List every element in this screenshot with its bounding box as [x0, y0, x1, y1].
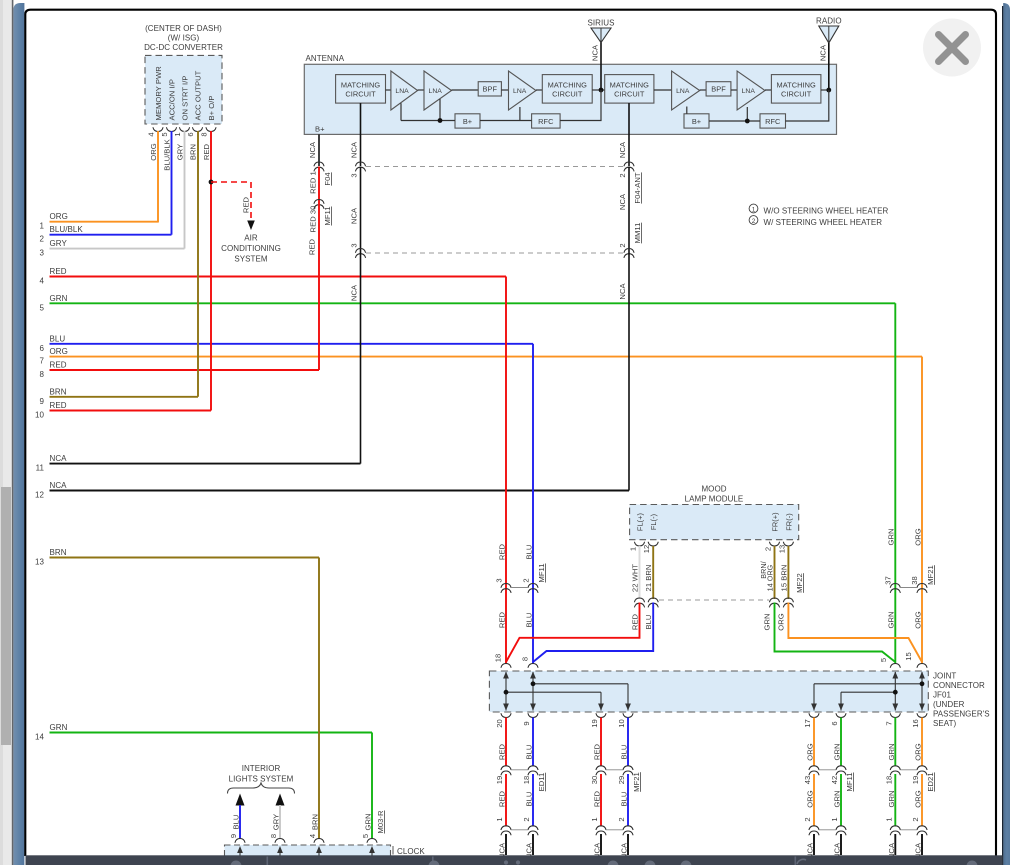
svg-text:10: 10 — [35, 411, 44, 420]
LNA A2 — [424, 71, 452, 110]
junction dot on RED B+ wire — [209, 180, 214, 185]
wire 8 number — [40, 370, 45, 379]
B+ supply box 1 — [455, 114, 480, 128]
svg-text:ORG: ORG — [914, 743, 923, 760]
wire LNA4 to BPF2 — [700, 89, 706, 91]
svg-text:ED21: ED21 — [926, 772, 935, 791]
svg-text:2: 2 — [803, 817, 812, 821]
svg-text:RED 30: RED 30 — [309, 206, 318, 233]
svg-text:5: 5 — [40, 303, 45, 312]
svg-text:CONDITIONING: CONDITIONING — [221, 244, 281, 253]
wire 5 label GRN — [50, 294, 68, 303]
svg-text:ACC/ON I/P: ACC/ON I/P — [168, 79, 177, 120]
antenna label — [306, 54, 345, 63]
svg-text:BRN: BRN — [50, 548, 67, 557]
svg-text:SYSTEM: SYSTEM — [234, 255, 267, 264]
JF01 exit arrow x533 — [530, 704, 536, 711]
svg-text:1: 1 — [173, 132, 182, 136]
svg-text:MATCHING: MATCHING — [548, 80, 587, 89]
wire 13 BRN horizontal — [50, 557, 320, 559]
svg-text:GRY: GRY — [176, 144, 185, 160]
svg-text:GRN: GRN — [887, 611, 896, 628]
svg-text:MATCHING: MATCHING — [777, 80, 816, 89]
JF01 exit cup x841 — [836, 713, 846, 717]
wire 5 number — [40, 303, 45, 312]
wire 1 number — [40, 222, 45, 231]
wire MC3 to LNA4 — [654, 89, 672, 91]
svg-text:1: 1 — [40, 222, 45, 231]
DC-DC pin 4 connector — [147, 127, 164, 136]
svg-text:BLU/BLK: BLU/BLK — [50, 225, 84, 234]
wire 2 BLU/BLK horizontal — [50, 234, 172, 236]
svg-text:ON STRT I/P: ON STRT I/P — [181, 76, 190, 121]
svg-text:NCA: NCA — [50, 454, 68, 463]
MC3 drop NCA upper — [618, 103, 629, 166]
svg-text:3: 3 — [495, 578, 504, 582]
svg-text:FL(+): FL(+) — [636, 513, 645, 531]
svg-text:BLU: BLU — [525, 545, 534, 560]
wire 11 number — [36, 464, 45, 473]
connector MM11 dashed link — [366, 252, 623, 254]
JF01 label — [933, 672, 990, 729]
svg-text:20: 20 — [495, 719, 504, 728]
clock internal arrow pin 9 — [237, 846, 243, 858]
antenna module box — [304, 64, 836, 134]
svg-text:BLU: BLU — [644, 615, 653, 630]
MC3 drop NCA middle — [618, 167, 642, 254]
note 1 W/O steering wheel heater — [749, 204, 888, 215]
svg-text:MOOD: MOOD — [701, 485, 726, 494]
svg-text:2: 2 — [618, 173, 627, 177]
svg-text:42: 42 — [830, 776, 839, 785]
svg-text:4: 4 — [308, 834, 317, 838]
DC-DC pin 1 wire label GRY — [176, 144, 185, 160]
svg-text:5: 5 — [361, 834, 370, 838]
svg-text:RED: RED — [593, 790, 602, 807]
svg-text:29: 29 — [617, 776, 626, 785]
svg-text:FR(+): FR(+) — [771, 512, 780, 531]
LNA3 bias drop — [519, 107, 521, 121]
svg-text:BRN: BRN — [189, 144, 198, 160]
svg-text:RADIO: RADIO — [816, 16, 842, 25]
svg-text:ORG: ORG — [914, 528, 923, 545]
wire 8 label RED — [50, 361, 67, 370]
node SIRIUS junction — [599, 88, 604, 93]
node bias junction 2 — [745, 119, 750, 124]
mood lamp wire pin2 BRN/ORG — [759, 546, 775, 599]
svg-text:15: 15 — [904, 652, 913, 661]
air conditioning system text — [221, 234, 281, 264]
wire BPF2 to LNA5 — [731, 89, 737, 91]
svg-text:NCA: NCA — [618, 141, 627, 158]
svg-text:12: 12 — [35, 491, 44, 500]
svg-text:16: 16 — [911, 719, 920, 728]
svg-text:JF01: JF01 — [933, 691, 951, 700]
svg-text:CLOCK: CLOCK — [397, 847, 425, 856]
JF01 internal column pin8-9 — [530, 672, 536, 711]
SIRIUS antenna symbol — [591, 28, 611, 43]
SIRIUS NCA label — [591, 44, 600, 61]
MC1 drop NCA middle — [350, 167, 361, 254]
clock label — [393, 846, 425, 856]
connector ED11 tick — [511, 770, 528, 830]
page scrollbar thumb — [1, 487, 11, 745]
svg-text:11: 11 — [36, 464, 45, 473]
svg-text:ORG: ORG — [914, 611, 923, 628]
svg-text:GRN: GRN — [50, 294, 68, 303]
JF01 exit arrow x922 — [919, 704, 925, 711]
RADIO NCA wire — [828, 43, 830, 90]
RADIO NCA label — [818, 44, 827, 61]
svg-text:3: 3 — [350, 173, 359, 177]
svg-text:LAMP MODULE: LAMP MODULE — [685, 495, 744, 504]
svg-text:GRY: GRY — [50, 239, 68, 248]
wire 12 NCA horizontal — [50, 490, 630, 492]
connector MF11 lower tick — [819, 770, 836, 830]
svg-text:RED: RED — [498, 743, 507, 760]
output wire ORG pin 16 — [911, 718, 935, 860]
wire 14 GRN vertical to clock — [371, 733, 373, 839]
svg-text:8: 8 — [269, 834, 278, 838]
svg-text:1: 1 — [752, 206, 756, 213]
svg-text:LNA: LNA — [429, 88, 443, 95]
DC-DC pin 6 connector — [186, 127, 203, 136]
connector MF22 pin 21 — [648, 598, 658, 607]
svg-text:B+: B+ — [315, 125, 325, 134]
output wire BLU pin 10 — [617, 718, 641, 860]
svg-text:CONNECTOR: CONNECTOR — [933, 681, 985, 690]
matching circuit U2 — [542, 75, 592, 104]
mood lamp pin 1 FL(+) — [629, 513, 645, 551]
clock internal arrow pin 4 — [316, 846, 322, 858]
svg-text:BLU/BLK: BLU/BLK — [163, 139, 172, 171]
svg-text:14: 14 — [35, 733, 44, 742]
wire 2 number — [40, 235, 45, 244]
mood lamp pin 13 FR(-) — [777, 513, 793, 553]
wire 9 BRN vertical — [197, 131, 199, 397]
connector MM11 pin 3 — [350, 243, 366, 258]
svg-text:RED: RED — [308, 238, 317, 255]
svg-text:RED: RED — [631, 613, 640, 630]
wire 10 number — [35, 411, 44, 420]
DC-DC pin 1 ON STRT I/P — [181, 76, 190, 121]
svg-text:1: 1 — [495, 817, 504, 821]
wire 7 number — [40, 357, 45, 366]
svg-text:B+ O/P: B+ O/P — [207, 96, 216, 121]
wire B+2 to RFC2 — [709, 120, 760, 122]
svg-text:RED: RED — [498, 790, 507, 807]
svg-text:RED: RED — [498, 543, 507, 560]
svg-text:GRN: GRN — [887, 790, 896, 807]
svg-text:1: 1 — [830, 817, 839, 821]
clock internal arrow pin 5 — [369, 846, 375, 858]
JF01 bus 8-10 — [531, 681, 628, 710]
wire 7 label ORG — [50, 347, 68, 356]
SIRIUS NCA wire — [600, 43, 602, 91]
connector MF22 pin 15 — [783, 598, 793, 607]
node bias junction 1 — [438, 118, 443, 123]
JF01 exit cup x628 — [623, 713, 633, 717]
wire 1 label ORG — [50, 212, 68, 221]
mood lamp pin 12 FL(-) — [642, 514, 658, 553]
svg-text:GRN: GRN — [763, 613, 772, 630]
output wire BLU pin 9 — [522, 718, 546, 860]
svg-text:2: 2 — [911, 817, 920, 821]
svg-text:RED 1: RED 1 — [309, 171, 318, 194]
svg-text:BLU: BLU — [525, 745, 534, 760]
svg-text:LNA: LNA — [742, 88, 756, 95]
connector MF11 pin 3 lower — [495, 578, 512, 593]
connector F04 pin 1 — [314, 162, 324, 171]
wire 7 ORG horizontal — [50, 356, 923, 358]
svg-text:2: 2 — [617, 817, 626, 821]
mood ORG wire to JF01 pin 15 — [777, 603, 923, 663]
svg-text:NCA: NCA — [350, 207, 359, 224]
svg-text:BLU: BLU — [525, 613, 534, 628]
svg-text:3: 3 — [40, 249, 45, 258]
svg-text:MATCHING: MATCHING — [610, 80, 649, 89]
svg-text:ORG: ORG — [149, 143, 158, 160]
svg-text:RFC: RFC — [765, 117, 781, 126]
JF01 internal column pin5-7 — [892, 672, 898, 711]
svg-text:GRN: GRN — [887, 743, 896, 760]
svg-text:MF21: MF21 — [926, 565, 935, 585]
svg-text:M03-R: M03-R — [376, 810, 385, 834]
LNA5 bias drop — [746, 107, 748, 121]
connector F04 pin 3 — [350, 162, 366, 178]
svg-text:GRN: GRN — [833, 743, 842, 760]
DC-DC pin 8 connector — [200, 127, 217, 136]
svg-text:9: 9 — [522, 721, 531, 725]
JF01 exit arrow x895.3 — [892, 704, 898, 711]
svg-text:LNA: LNA — [676, 88, 690, 95]
connector MF21 pin 37 — [884, 576, 901, 593]
wire 10 RED horizontal — [50, 410, 212, 412]
connector MF21 pin 38 — [910, 565, 935, 593]
wire 5 GRN horizontal — [50, 302, 896, 304]
matching circuit U3 — [605, 75, 654, 104]
JF01 internal column pin18-20 — [503, 672, 509, 711]
output wire RED pin 19 — [590, 718, 606, 860]
svg-text:43: 43 — [803, 776, 812, 785]
mood GRN wire to JF01 pin 5 — [763, 603, 896, 663]
JF01 exit arrow x628 — [625, 704, 631, 711]
svg-text:B+: B+ — [692, 117, 701, 126]
svg-text:BLU: BLU — [620, 792, 629, 807]
wire 7 ORG vertical — [914, 357, 923, 664]
svg-text:8: 8 — [200, 132, 209, 136]
wire 6 number — [40, 344, 45, 353]
wire 14 GRN horizontal — [50, 732, 373, 734]
mood lamp wire pin13 BRN — [779, 546, 804, 599]
mood RED wire to JF01 pin 18 — [506, 603, 640, 663]
RFC choke box 2 — [760, 114, 786, 128]
svg-text:CIRCUIT: CIRCUIT — [614, 89, 645, 98]
output wire ORG pin 17 — [803, 718, 819, 860]
svg-text:F04: F04 — [323, 172, 332, 185]
svg-text:22 WHT: 22 WHT — [631, 564, 640, 592]
svg-text:MF22: MF22 — [795, 573, 804, 593]
interior lights GRY arrow — [276, 794, 285, 839]
svg-text:13: 13 — [777, 545, 786, 554]
svg-text:BLU: BLU — [232, 815, 241, 830]
page scrollbar track — [0, 0, 12, 865]
RADIO label — [816, 16, 842, 25]
wire 3 GRY vertical — [184, 131, 186, 249]
dialog left bar — [12, 0, 25, 865]
B+ supply box 2 — [684, 114, 709, 128]
mood lamp module title — [685, 485, 744, 504]
DC-DC pin 5 ACC/ON I/P — [168, 79, 177, 120]
svg-text:(UNDER: (UNDER — [933, 700, 965, 709]
svg-text:1: 1 — [629, 547, 638, 551]
JF01 exit arrow x506 — [503, 704, 509, 711]
wire 6 BLU horizontal — [50, 343, 534, 345]
svg-text:RED: RED — [242, 196, 251, 213]
svg-text:8: 8 — [521, 657, 530, 661]
svg-text:BPF: BPF — [483, 85, 498, 94]
svg-text:19: 19 — [911, 776, 920, 785]
JF01 exit arrow x601 — [598, 704, 604, 711]
svg-text:19: 19 — [590, 719, 599, 728]
svg-text:CIRCUIT: CIRCUIT — [552, 89, 583, 98]
wire 3 number — [40, 249, 45, 258]
band-pass filter BPF1 — [478, 82, 501, 96]
svg-text:ORG: ORG — [777, 613, 786, 630]
MC1 drop NCA lower to wire 11 — [350, 253, 361, 464]
svg-text:RED: RED — [50, 361, 67, 370]
DC-DC pin 8 wire label RED — [202, 143, 211, 160]
dashed RED branch to A/C — [211, 182, 251, 219]
DC-DC pin 8 B+ O/P — [207, 96, 216, 121]
JF01 bus 17-15 — [814, 681, 924, 710]
svg-text:RED: RED — [50, 401, 67, 410]
svg-text:ORG: ORG — [50, 347, 68, 356]
JF01 exit arrow x814 — [811, 704, 817, 711]
matching circuit U4 — [771, 75, 821, 104]
JF01 exit cup x601 — [596, 713, 606, 717]
connector MF11 pin 18 label — [494, 654, 503, 663]
svg-text:RED: RED — [50, 267, 67, 276]
connector ED21 tick — [900, 770, 917, 830]
wire 13 label BRN — [50, 548, 67, 557]
wire RFC1 to SIRIUS node — [560, 90, 601, 121]
wire 4 number — [40, 277, 45, 286]
svg-text:18: 18 — [884, 776, 893, 785]
wire 13 number — [35, 558, 44, 567]
svg-text:2: 2 — [40, 235, 45, 244]
svg-text:NCA: NCA — [308, 141, 317, 158]
connector MM11 pin 2 — [618, 243, 634, 258]
wire B+1 to RFC1 — [480, 120, 532, 122]
svg-text:BLU: BLU — [525, 792, 534, 807]
JF01 entry arch x506 — [501, 664, 511, 668]
connector MF11 tick — [511, 587, 528, 589]
mood lamp wire pin1 WHT — [631, 546, 640, 599]
wire 4 RED horizontal — [50, 276, 507, 278]
wire LNA2 to BPF1 — [452, 89, 479, 91]
LNA4 bias drop — [686, 107, 688, 114]
bottom toolbar — [26, 855, 1003, 865]
wire BPF1 to LNA3 — [501, 89, 508, 91]
svg-text:BLU: BLU — [620, 745, 629, 760]
A/C arrow — [247, 221, 255, 231]
wire 3 GRY horizontal — [50, 248, 185, 250]
wire LNA1 to LNA2 — [418, 89, 424, 91]
LNA1 bias drop — [400, 103, 402, 120]
JF01 exit cup x533 — [528, 713, 538, 717]
interior lights system text — [229, 764, 294, 784]
DC-DC pin 4 MEMORY PWR — [154, 66, 163, 121]
svg-text:2: 2 — [764, 547, 773, 551]
svg-text:NCA: NCA — [350, 284, 359, 301]
wire 13 BRN vertical to clock — [318, 558, 320, 839]
LNA A4 — [672, 71, 700, 110]
svg-text:ORG: ORG — [806, 790, 815, 807]
svg-text:19: 19 — [495, 776, 504, 785]
JF01 exit cup x895.3 — [890, 713, 900, 717]
wire 5 GRN vertical — [887, 303, 896, 663]
svg-text:B+: B+ — [463, 117, 472, 126]
wire 2 label BLU/BLK — [50, 225, 84, 234]
node RADIO junction — [826, 88, 831, 93]
svg-text:W/ STEERING WHEEL HEATER: W/ STEERING WHEEL HEATER — [764, 218, 883, 227]
connector F04-ANT pin 2 — [618, 162, 642, 204]
wire 9 label BRN — [50, 387, 67, 396]
svg-text:NCA: NCA — [618, 193, 627, 210]
wire LNA5 to MC4 — [765, 89, 771, 91]
LNA A3 — [509, 71, 537, 110]
connector MF22 dashed link — [659, 599, 769, 601]
connector MF22 pin 22 — [634, 598, 644, 607]
wire 3 label GRY — [50, 239, 68, 248]
JF01 box — [489, 671, 928, 712]
note 2 W/ steering wheel heater — [749, 216, 882, 227]
LNA A5 — [737, 71, 765, 110]
DC-DC pin 1 connector — [173, 127, 190, 136]
svg-text:10: 10 — [617, 719, 626, 728]
wire 12 label NCA — [50, 481, 68, 490]
svg-text:CIRCUIT: CIRCUIT — [345, 89, 376, 98]
DC-DC pin 5 wire label BLU/BLK — [163, 139, 172, 171]
clock internal arrow pin 8 — [277, 846, 283, 858]
svg-text:ORG: ORG — [806, 743, 815, 760]
clock pin 8 connector — [269, 814, 285, 843]
svg-text:6: 6 — [830, 721, 839, 725]
wire 10 label RED — [50, 401, 67, 410]
connector MF21 lower tick — [606, 770, 623, 830]
JF01 exit arrow x841 — [838, 704, 844, 711]
output wire GRN pin 7 — [884, 718, 900, 860]
svg-text:BRN: BRN — [50, 387, 67, 396]
svg-text:INTERIOR: INTERIOR — [242, 764, 281, 773]
wire 11 NCA horizontal — [50, 463, 361, 465]
svg-text:18: 18 — [522, 776, 531, 785]
clock pin 4 connector — [308, 814, 324, 843]
wire 14 number — [35, 733, 44, 742]
svg-text:MATCHING: MATCHING — [341, 80, 380, 89]
svg-text:ED11: ED11 — [537, 773, 546, 792]
connector MF21 tick — [900, 587, 917, 589]
close button — [923, 19, 981, 77]
RFC choke box 1 — [532, 114, 561, 128]
svg-text:5: 5 — [879, 658, 888, 662]
svg-text:SEAT): SEAT) — [933, 719, 957, 728]
svg-text:6: 6 — [40, 344, 45, 353]
svg-text:LNA: LNA — [513, 88, 527, 95]
svg-text:RFC: RFC — [538, 117, 554, 126]
svg-text:2: 2 — [522, 817, 531, 821]
